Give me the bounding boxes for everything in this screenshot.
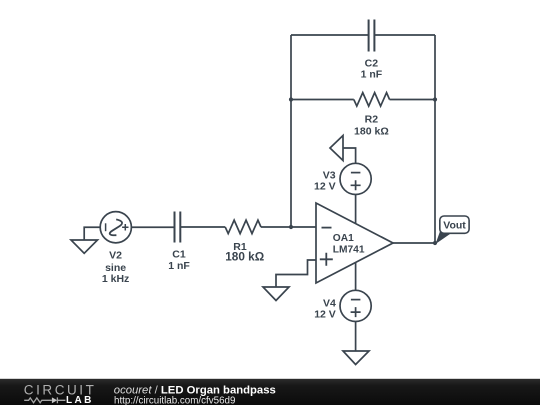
logo resistor glyph bbox=[24, 398, 52, 403]
wire R1 to op-amp inverting input bbox=[261, 226, 316, 228]
op-amp minus symbol bbox=[322, 227, 332, 229]
svg-text:R2: R2 bbox=[365, 113, 379, 125]
junction node R2 left bbox=[289, 97, 293, 101]
svg-text:1 kHz: 1 kHz bbox=[102, 273, 129, 285]
wire top left from feedback node to C2 bbox=[291, 34, 368, 36]
wire left vertical feedback column bbox=[290, 35, 292, 227]
svg-text:180 kΩ: 180 kΩ bbox=[225, 250, 264, 264]
wire op-amp non-inverting input to ground bbox=[276, 260, 316, 287]
ground for V2 bbox=[71, 240, 98, 253]
svg-text:1 nF: 1 nF bbox=[168, 260, 190, 272]
junction node output bbox=[433, 241, 437, 245]
svg-text:LM741: LM741 bbox=[333, 245, 365, 256]
svg-text:V2: V2 bbox=[109, 250, 122, 262]
junction node inverting input bbox=[289, 225, 293, 229]
svg-text:C2: C2 bbox=[365, 57, 379, 69]
svg-text:1 nF: 1 nF bbox=[361, 69, 383, 81]
node flag Vout bbox=[436, 216, 470, 244]
svg-text:Vout: Vout bbox=[443, 219, 466, 231]
wire right vertical output column bbox=[434, 35, 436, 243]
svg-text:12 V: 12 V bbox=[314, 308, 336, 320]
capacitor C2 bbox=[369, 20, 375, 52]
capacitor C1 bbox=[175, 212, 181, 243]
resistor R2 bbox=[354, 93, 390, 107]
wire top right from C2 to output column bbox=[375, 34, 435, 36]
junction node R2 right bbox=[433, 97, 437, 101]
resistor R1 bbox=[225, 220, 261, 234]
logo diode glyph bbox=[52, 397, 57, 403]
source V4 bbox=[340, 290, 371, 321]
svg-text:LAB: LAB bbox=[66, 395, 94, 405]
wire V2 to C1 bbox=[131, 226, 173, 228]
svg-text:180 kΩ: 180 kΩ bbox=[354, 125, 389, 137]
wire C1 to R1 bbox=[181, 226, 225, 228]
svg-text:sine: sine bbox=[105, 262, 126, 274]
ground for V4 bbox=[343, 351, 369, 365]
source V2 bbox=[100, 212, 131, 243]
ground for V3 (left pointing) bbox=[330, 136, 343, 161]
svg-text:C1: C1 bbox=[172, 249, 186, 261]
wire R2 left bbox=[291, 99, 354, 101]
svg-text:12 V: 12 V bbox=[314, 180, 336, 192]
wire V4 to ground bbox=[355, 322, 357, 352]
wire V3 top to ground bbox=[343, 148, 356, 163]
wire R2 right bbox=[390, 99, 436, 101]
footer bar bbox=[0, 379, 540, 405]
op-amp plus symbol bbox=[320, 253, 333, 266]
svg-text:OA1: OA1 bbox=[333, 233, 354, 244]
wire op-amp to V4 bbox=[355, 263, 357, 291]
svg-text:http://circuitlab.com/cfv56d9: http://circuitlab.com/cfv56d9 bbox=[114, 395, 235, 405]
wire V3 to op-amp bbox=[355, 195, 357, 224]
op-amp OA1 bbox=[316, 203, 393, 283]
wire V2 to ground bbox=[84, 227, 100, 240]
source V3 bbox=[340, 163, 371, 194]
wire op-amp output bbox=[393, 242, 435, 244]
ground for non-inverting input bbox=[263, 287, 289, 301]
